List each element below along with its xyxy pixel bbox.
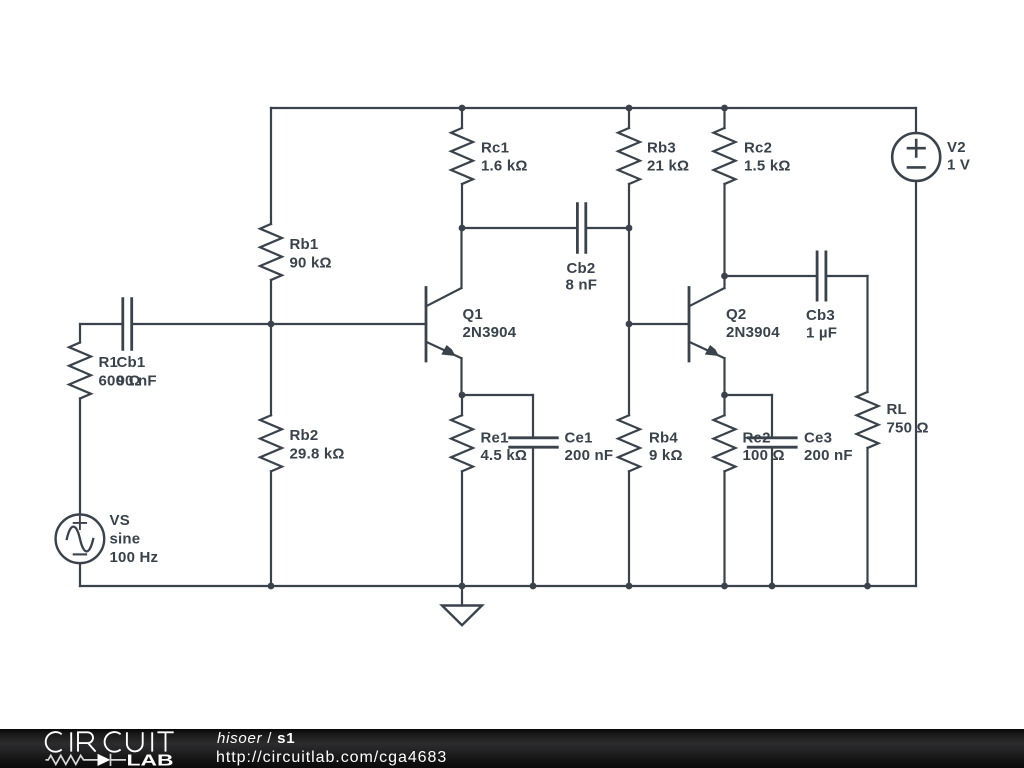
transistor Q1 emitter arrow xyxy=(441,345,455,356)
svg-text:2N3904: 2N3904 xyxy=(463,324,517,341)
source VS minus xyxy=(74,553,86,555)
resistor Re2 xyxy=(714,415,736,471)
svg-text:Rb2: Rb2 xyxy=(290,427,319,444)
capacitor Ce1 plates xyxy=(510,438,558,447)
wire Cb2 node xyxy=(462,227,629,229)
wire Re1 column xyxy=(461,395,463,586)
ground stem xyxy=(461,586,463,606)
transistor Q2 emitter xyxy=(689,342,725,395)
svg-text:4.5 kΩ: 4.5 kΩ xyxy=(481,447,528,464)
svg-text:Rc1: Rc1 xyxy=(481,140,509,157)
svg-text:200 nF: 200 nF xyxy=(804,447,853,464)
svg-text:Q1: Q1 xyxy=(463,306,483,323)
resistor Rb2 xyxy=(260,415,282,471)
svg-text:1.5 kΩ: 1.5 kΩ xyxy=(744,158,791,175)
wire R1 column xyxy=(79,324,81,586)
svg-text:Rb3: Rb3 xyxy=(647,140,676,157)
svg-text:sine: sine xyxy=(110,531,141,548)
node dot top Rc2 xyxy=(721,105,728,112)
logo letter T xyxy=(157,732,173,751)
svg-text:9 kΩ: 9 kΩ xyxy=(649,447,683,464)
capacitor Cb3 plates xyxy=(817,252,826,300)
source V2 plus xyxy=(908,140,925,156)
node dot top Rc1 xyxy=(459,105,466,112)
logo letter C xyxy=(105,732,121,752)
svg-text:VS: VS xyxy=(110,512,130,529)
wire Q1 emitter node xyxy=(462,394,533,396)
node dot bottom Re2 xyxy=(721,583,728,590)
svg-text:Cb3: Cb3 xyxy=(806,307,835,324)
wire Rc1 column xyxy=(461,108,463,228)
source VS sine xyxy=(67,527,93,552)
node dot Q2 collector xyxy=(721,273,728,280)
svg-text:Rc2: Rc2 xyxy=(744,140,772,157)
logo diode xyxy=(98,754,111,766)
svg-text:90 kΩ: 90 kΩ xyxy=(290,255,332,272)
source V2 circle xyxy=(892,133,940,181)
node dot bottom RL xyxy=(864,583,871,590)
svg-text:100 Ω: 100 Ω xyxy=(743,447,785,464)
transistor Q1 emitter xyxy=(426,342,462,395)
logo letter U xyxy=(127,732,143,751)
footer url xyxy=(216,749,447,767)
wire Rb3 column xyxy=(628,108,630,324)
wire Q2 emitter node xyxy=(725,394,773,396)
wire bottom rail xyxy=(80,585,916,587)
source VS circle xyxy=(56,515,105,564)
node dot bottom Rb4 xyxy=(626,583,633,590)
svg-text:100 Hz: 100 Hz xyxy=(110,549,159,566)
resistor R1 xyxy=(69,343,91,399)
svg-text:750 Ω: 750 Ω xyxy=(887,420,929,437)
capacitor Ce3 plates xyxy=(748,438,796,447)
logo letter C xyxy=(46,732,62,752)
logo letter R xyxy=(78,732,96,751)
resistor Rc2 xyxy=(714,128,736,184)
resistor RL xyxy=(857,392,879,448)
logo letter I xyxy=(70,732,72,751)
wire Q1 base (input node) xyxy=(80,323,426,325)
footer bar xyxy=(0,729,1024,768)
node dot Rc1/Cb2 xyxy=(459,225,466,232)
wire Q2 collector to Cb3 xyxy=(725,275,868,277)
wire Q2 base xyxy=(629,323,689,325)
transistor Q1 collector xyxy=(426,228,462,306)
transistor Q2 collector xyxy=(689,276,725,306)
svg-text:Re1: Re1 xyxy=(481,430,509,447)
node dot Rb3/Rb4 base xyxy=(626,321,633,328)
svg-text:Ce1: Ce1 xyxy=(565,430,593,447)
wire Re2 column xyxy=(723,395,725,586)
svg-text:Rb4: Rb4 xyxy=(649,430,678,447)
svg-text:RL: RL xyxy=(887,401,907,418)
svg-text:LAB: LAB xyxy=(127,753,174,768)
svg-text:1.6 kΩ: 1.6 kΩ xyxy=(481,158,528,175)
resistor Rc1 xyxy=(451,128,473,184)
wire top rail xyxy=(271,107,916,109)
resistor Rb1 xyxy=(260,224,282,280)
logo resistor zigzag xyxy=(46,755,98,764)
wire Ce3 column xyxy=(771,395,773,586)
wire Rb4 column xyxy=(628,324,630,586)
node dot Q2 emitter xyxy=(721,392,728,399)
svg-text:21 kΩ: 21 kΩ xyxy=(647,158,689,175)
wire RL column xyxy=(866,276,868,586)
svg-text:Re2: Re2 xyxy=(743,430,771,447)
svg-text:Rb1: Rb1 xyxy=(290,236,319,253)
node dot Q1 emitter xyxy=(459,392,466,399)
node dot Rb1/Rb2 base xyxy=(268,321,275,328)
node dot Cb2/Rb3 xyxy=(626,225,633,232)
svg-text:Q2: Q2 xyxy=(726,306,746,323)
transistor Q2 base bar xyxy=(688,288,691,362)
svg-text:R1: R1 xyxy=(99,354,119,371)
svg-text:Cb2: Cb2 xyxy=(567,260,596,277)
svg-text:2N3904: 2N3904 xyxy=(726,324,780,341)
source VS plus xyxy=(74,517,86,529)
node dot bottom Ce3 xyxy=(769,583,776,590)
logo letter I xyxy=(151,732,153,751)
footer text hisoer / s1 xyxy=(217,730,295,747)
source V2 minus xyxy=(908,166,925,169)
wire right rail (V2 branch) xyxy=(915,108,917,586)
capacitor Cb2 plates xyxy=(577,204,585,253)
node dot top Rb3 xyxy=(626,105,633,112)
svg-text:1 V: 1 V xyxy=(947,157,970,174)
node dot bottom ground xyxy=(459,583,466,590)
transistor Q2 emitter arrow xyxy=(705,345,719,356)
svg-text:Cb1: Cb1 xyxy=(117,354,146,371)
svg-text:90 nF: 90 nF xyxy=(117,373,157,390)
svg-text:1 µF: 1 µF xyxy=(806,325,837,342)
svg-text:200 nF: 200 nF xyxy=(565,447,614,464)
capacitor Cb1 plates xyxy=(123,299,132,350)
transistor Q1 base bar xyxy=(425,288,428,362)
wire Rc2 column xyxy=(723,108,725,276)
resistor Re1 xyxy=(451,415,473,471)
resistor Rb4 xyxy=(618,415,640,471)
wire Rb1/Rb2 column xyxy=(270,108,272,586)
svg-text:V2: V2 xyxy=(947,139,966,156)
node dot bottom Rb2 xyxy=(268,583,275,590)
svg-text:29.8 kΩ: 29.8 kΩ xyxy=(290,446,345,463)
svg-text:8 nF: 8 nF xyxy=(566,277,598,294)
wire Ce1 column xyxy=(532,395,534,586)
node dot bottom Ce1 xyxy=(530,583,537,590)
svg-text:Ce3: Ce3 xyxy=(804,430,832,447)
resistor Rb3 xyxy=(618,128,640,184)
ground triangle xyxy=(442,606,482,626)
